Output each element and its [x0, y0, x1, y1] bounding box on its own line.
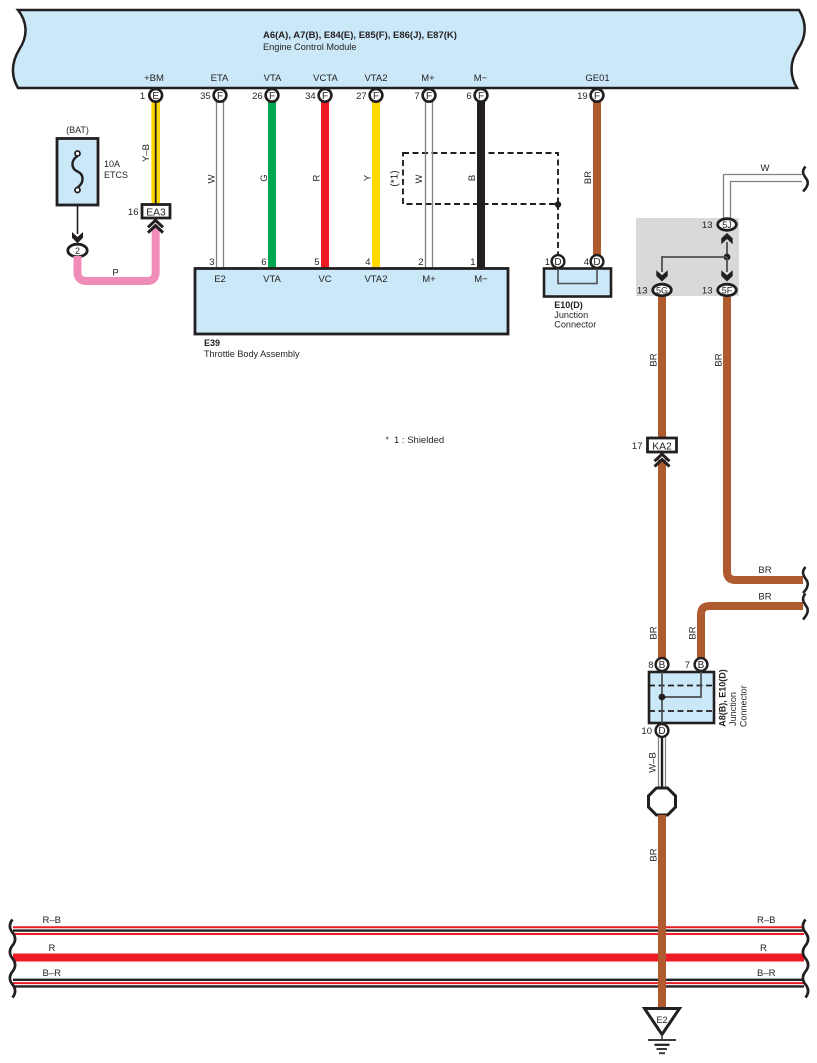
- svg-text:ETA: ETA: [211, 73, 229, 84]
- svg-text:1: 1: [470, 257, 475, 268]
- ECM pin 27 F (VTA2): [356, 89, 382, 102]
- svg-text:W: W: [761, 163, 770, 174]
- svg-text:D: D: [593, 257, 600, 268]
- svg-text:F: F: [594, 91, 600, 102]
- svg-text:5J: 5J: [722, 220, 732, 230]
- svg-text:M−: M−: [474, 274, 488, 285]
- wire B-R horizontal: [13, 968, 804, 986]
- svg-text:R: R: [312, 174, 323, 181]
- svg-text:EA3: EA3: [146, 207, 166, 218]
- wire BR from splice to E2 ground: [649, 815, 663, 1009]
- ECM pin 7 F (M+): [414, 89, 435, 102]
- svg-text:BR: BR: [758, 565, 771, 576]
- connector KA2 (17): [632, 438, 677, 467]
- svg-text:M−: M−: [474, 73, 488, 84]
- svg-text:13: 13: [702, 286, 713, 297]
- svg-text:W: W: [414, 174, 425, 183]
- wire W from ECM M+ to E39 pin 2 (shielded): [414, 100, 433, 269]
- svg-text:VTA: VTA: [263, 274, 281, 285]
- link from dot to 5F: [721, 257, 732, 282]
- svg-text:B: B: [467, 175, 478, 181]
- wire BR from right tear to A8/E10 pin 7: [688, 592, 804, 659]
- svg-text:F: F: [426, 91, 432, 102]
- ground E2: [645, 1009, 680, 1054]
- svg-text:34: 34: [305, 91, 316, 102]
- svg-text:7: 7: [414, 91, 419, 102]
- junction connector E10(D): [544, 255, 611, 330]
- svg-text:1 : Shielded: 1 : Shielded: [394, 435, 444, 446]
- svg-text:A8(B), E10(D): A8(B), E10(D): [718, 669, 728, 727]
- svg-text:4: 4: [365, 257, 370, 268]
- svg-text:Engine Control Module: Engine Control Module: [263, 42, 356, 52]
- wire Y from ECM VTA2 to E39 pin 4: [363, 100, 377, 269]
- junction connector A8(B) E10(D) body: [649, 669, 749, 727]
- ECM pin 6 F (M-): [466, 89, 487, 102]
- svg-text:B–R: B–R: [43, 968, 62, 979]
- shield dashed box (*1) around M+ wire: [390, 153, 562, 255]
- splice octagon: [649, 788, 676, 815]
- svg-text:D: D: [658, 726, 665, 737]
- wire R-B horizontal: [13, 915, 804, 934]
- ECM pin 19 F (GE01): [577, 89, 603, 102]
- tear mark right (W wire): [803, 167, 808, 192]
- wire from fuse to terminal 2 with arrow: [72, 205, 83, 243]
- svg-text:M+: M+: [422, 274, 436, 285]
- ECM pin 34 F (VCTA): [305, 89, 331, 102]
- wire Y-B from ECM +BM to EA3: [141, 100, 156, 205]
- svg-text:Junction: Junction: [728, 692, 738, 726]
- svg-text:R–B: R–B: [43, 915, 61, 926]
- ECM pin 1 E (+BM): [140, 89, 162, 102]
- wire W-B from pin 10 to splice: [648, 737, 666, 788]
- svg-text:BR: BR: [649, 353, 660, 366]
- svg-text:Y: Y: [363, 174, 374, 181]
- terminal 2: [68, 244, 87, 257]
- svg-text:G: G: [259, 174, 270, 181]
- svg-text:5: 5: [314, 257, 319, 268]
- ECM pin 35 F (ETA): [200, 89, 226, 102]
- svg-text:R–B: R–B: [757, 915, 775, 926]
- svg-text:B–R: B–R: [757, 968, 776, 979]
- connector EA3 (16): [128, 205, 170, 233]
- svg-text:Connector: Connector: [554, 320, 596, 330]
- svg-text:6: 6: [261, 257, 266, 268]
- svg-text:BR: BR: [758, 592, 771, 603]
- svg-text:ETCS: ETCS: [104, 170, 128, 180]
- svg-text:3: 3: [209, 257, 214, 268]
- svg-text:E2: E2: [214, 274, 226, 285]
- svg-text:R: R: [49, 943, 56, 954]
- svg-text:VTA2: VTA2: [364, 73, 387, 84]
- svg-text:1: 1: [545, 257, 550, 268]
- svg-text:16: 16: [128, 207, 139, 218]
- svg-text:W–B: W–B: [648, 752, 659, 773]
- svg-text:(BAT): (BAT): [66, 125, 89, 135]
- svg-text:Junction: Junction: [554, 310, 588, 320]
- svg-text:R: R: [760, 943, 767, 954]
- svg-text:10A: 10A: [104, 159, 120, 169]
- link from dot to 5G: [656, 257, 727, 282]
- svg-text:35: 35: [200, 91, 211, 102]
- svg-text:BR: BR: [649, 848, 660, 861]
- arrow up into 5J: [721, 233, 732, 257]
- svg-text:P: P: [112, 268, 118, 279]
- connector 5J (13): [702, 219, 736, 231]
- svg-text:BR: BR: [649, 626, 660, 639]
- svg-text:A6(A), A7(B), E84(E), E85(F),: A6(A), A7(B), E84(E), E85(F), E86(J), E8…: [263, 30, 457, 41]
- svg-text:BR: BR: [688, 626, 699, 639]
- svg-text:E2: E2: [656, 1015, 667, 1025]
- ECM pin 26 F (VTA): [252, 89, 278, 102]
- svg-text:2: 2: [75, 246, 80, 256]
- svg-text:W: W: [207, 174, 218, 183]
- svg-text:2: 2: [418, 257, 423, 268]
- connector 5F (13): [702, 284, 736, 296]
- junction dot inside gray block: [724, 254, 731, 261]
- svg-text:7: 7: [685, 660, 690, 671]
- svg-text:6: 6: [466, 91, 471, 102]
- brown wire overlay crossing bottom wires: [658, 920, 666, 1009]
- svg-text:E10(D): E10(D): [554, 300, 583, 310]
- svg-text:VTA2: VTA2: [364, 274, 387, 285]
- svg-text:BR: BR: [714, 353, 725, 366]
- svg-text:D: D: [554, 257, 561, 268]
- svg-text:F: F: [373, 91, 379, 102]
- svg-text:17: 17: [632, 441, 643, 452]
- svg-text:E39: E39: [204, 338, 220, 348]
- svg-text:(*1): (*1): [390, 170, 401, 186]
- svg-text:8: 8: [648, 660, 653, 671]
- svg-text:KA2: KA2: [652, 441, 672, 452]
- tear mark right (BR wire upper): [803, 567, 808, 593]
- svg-text:4: 4: [584, 257, 589, 268]
- wire R from ECM VCTA to E39 pin 5: [312, 100, 326, 269]
- svg-text:27: 27: [356, 91, 367, 102]
- svg-text:VTA: VTA: [264, 73, 282, 84]
- tear mark right (BR wire lower): [803, 594, 808, 620]
- svg-text:Connector: Connector: [739, 685, 749, 727]
- ECM banner A6/A7/E84/E85/E86/E87: [13, 10, 805, 88]
- svg-text:+BM: +BM: [144, 73, 164, 84]
- svg-text:F: F: [322, 91, 328, 102]
- wire BR from 5G down to A8/E10 pin 8: [649, 297, 663, 658]
- svg-text:10: 10: [641, 726, 652, 737]
- svg-text:F: F: [478, 91, 484, 102]
- svg-text:BR: BR: [583, 171, 594, 184]
- svg-text:26: 26: [252, 91, 263, 102]
- svg-text:VC: VC: [318, 274, 331, 285]
- E39 throttle body assembly box: [195, 257, 508, 359]
- svg-text:5G: 5G: [656, 286, 668, 296]
- junction connector A8(B) E10(D) pins: [648, 658, 707, 671]
- tear marks right (bottom wires): [803, 920, 808, 998]
- wire BR from ECM GE01 to E10(D) pin 4: [583, 100, 597, 256]
- svg-text:GE01: GE01: [585, 73, 609, 84]
- svg-text:M+: M+: [421, 73, 435, 84]
- connector 5G (13): [637, 284, 671, 296]
- wire W from ECM ETA to E39 pin 3: [207, 100, 224, 269]
- wire P from terminal 2 to EA3: [78, 228, 156, 281]
- junction connector pin 10 D: [641, 724, 668, 737]
- svg-text:13: 13: [702, 220, 713, 231]
- svg-text:Y–B: Y–B: [141, 144, 152, 162]
- svg-text:B: B: [659, 660, 666, 671]
- svg-text:1: 1: [140, 91, 145, 102]
- tear marks left (bottom wires): [10, 920, 15, 998]
- svg-text:F: F: [217, 91, 223, 102]
- svg-text:E: E: [152, 91, 159, 102]
- svg-text:VCTA: VCTA: [313, 73, 338, 84]
- svg-text:F: F: [269, 91, 275, 102]
- wire BR from 5F to right tear: [714, 297, 804, 580]
- svg-text:Throttle Body Assembly: Throttle Body Assembly: [204, 349, 300, 359]
- wire R horizontal: [13, 943, 804, 958]
- gray junction block with 5J 5G 5F: [636, 218, 739, 296]
- wire G from ECM VTA to E39 pin 6: [259, 100, 272, 269]
- svg-text:13: 13: [637, 286, 648, 297]
- wire B from ECM M- to E39 pin 1: [467, 100, 481, 269]
- svg-text:B: B: [698, 660, 705, 671]
- svg-text:19: 19: [577, 91, 588, 102]
- svg-text:5F: 5F: [722, 286, 733, 296]
- wire W from right tear to 5J: [724, 163, 803, 218]
- fuse box (BAT) 10A ETCS: [57, 125, 128, 205]
